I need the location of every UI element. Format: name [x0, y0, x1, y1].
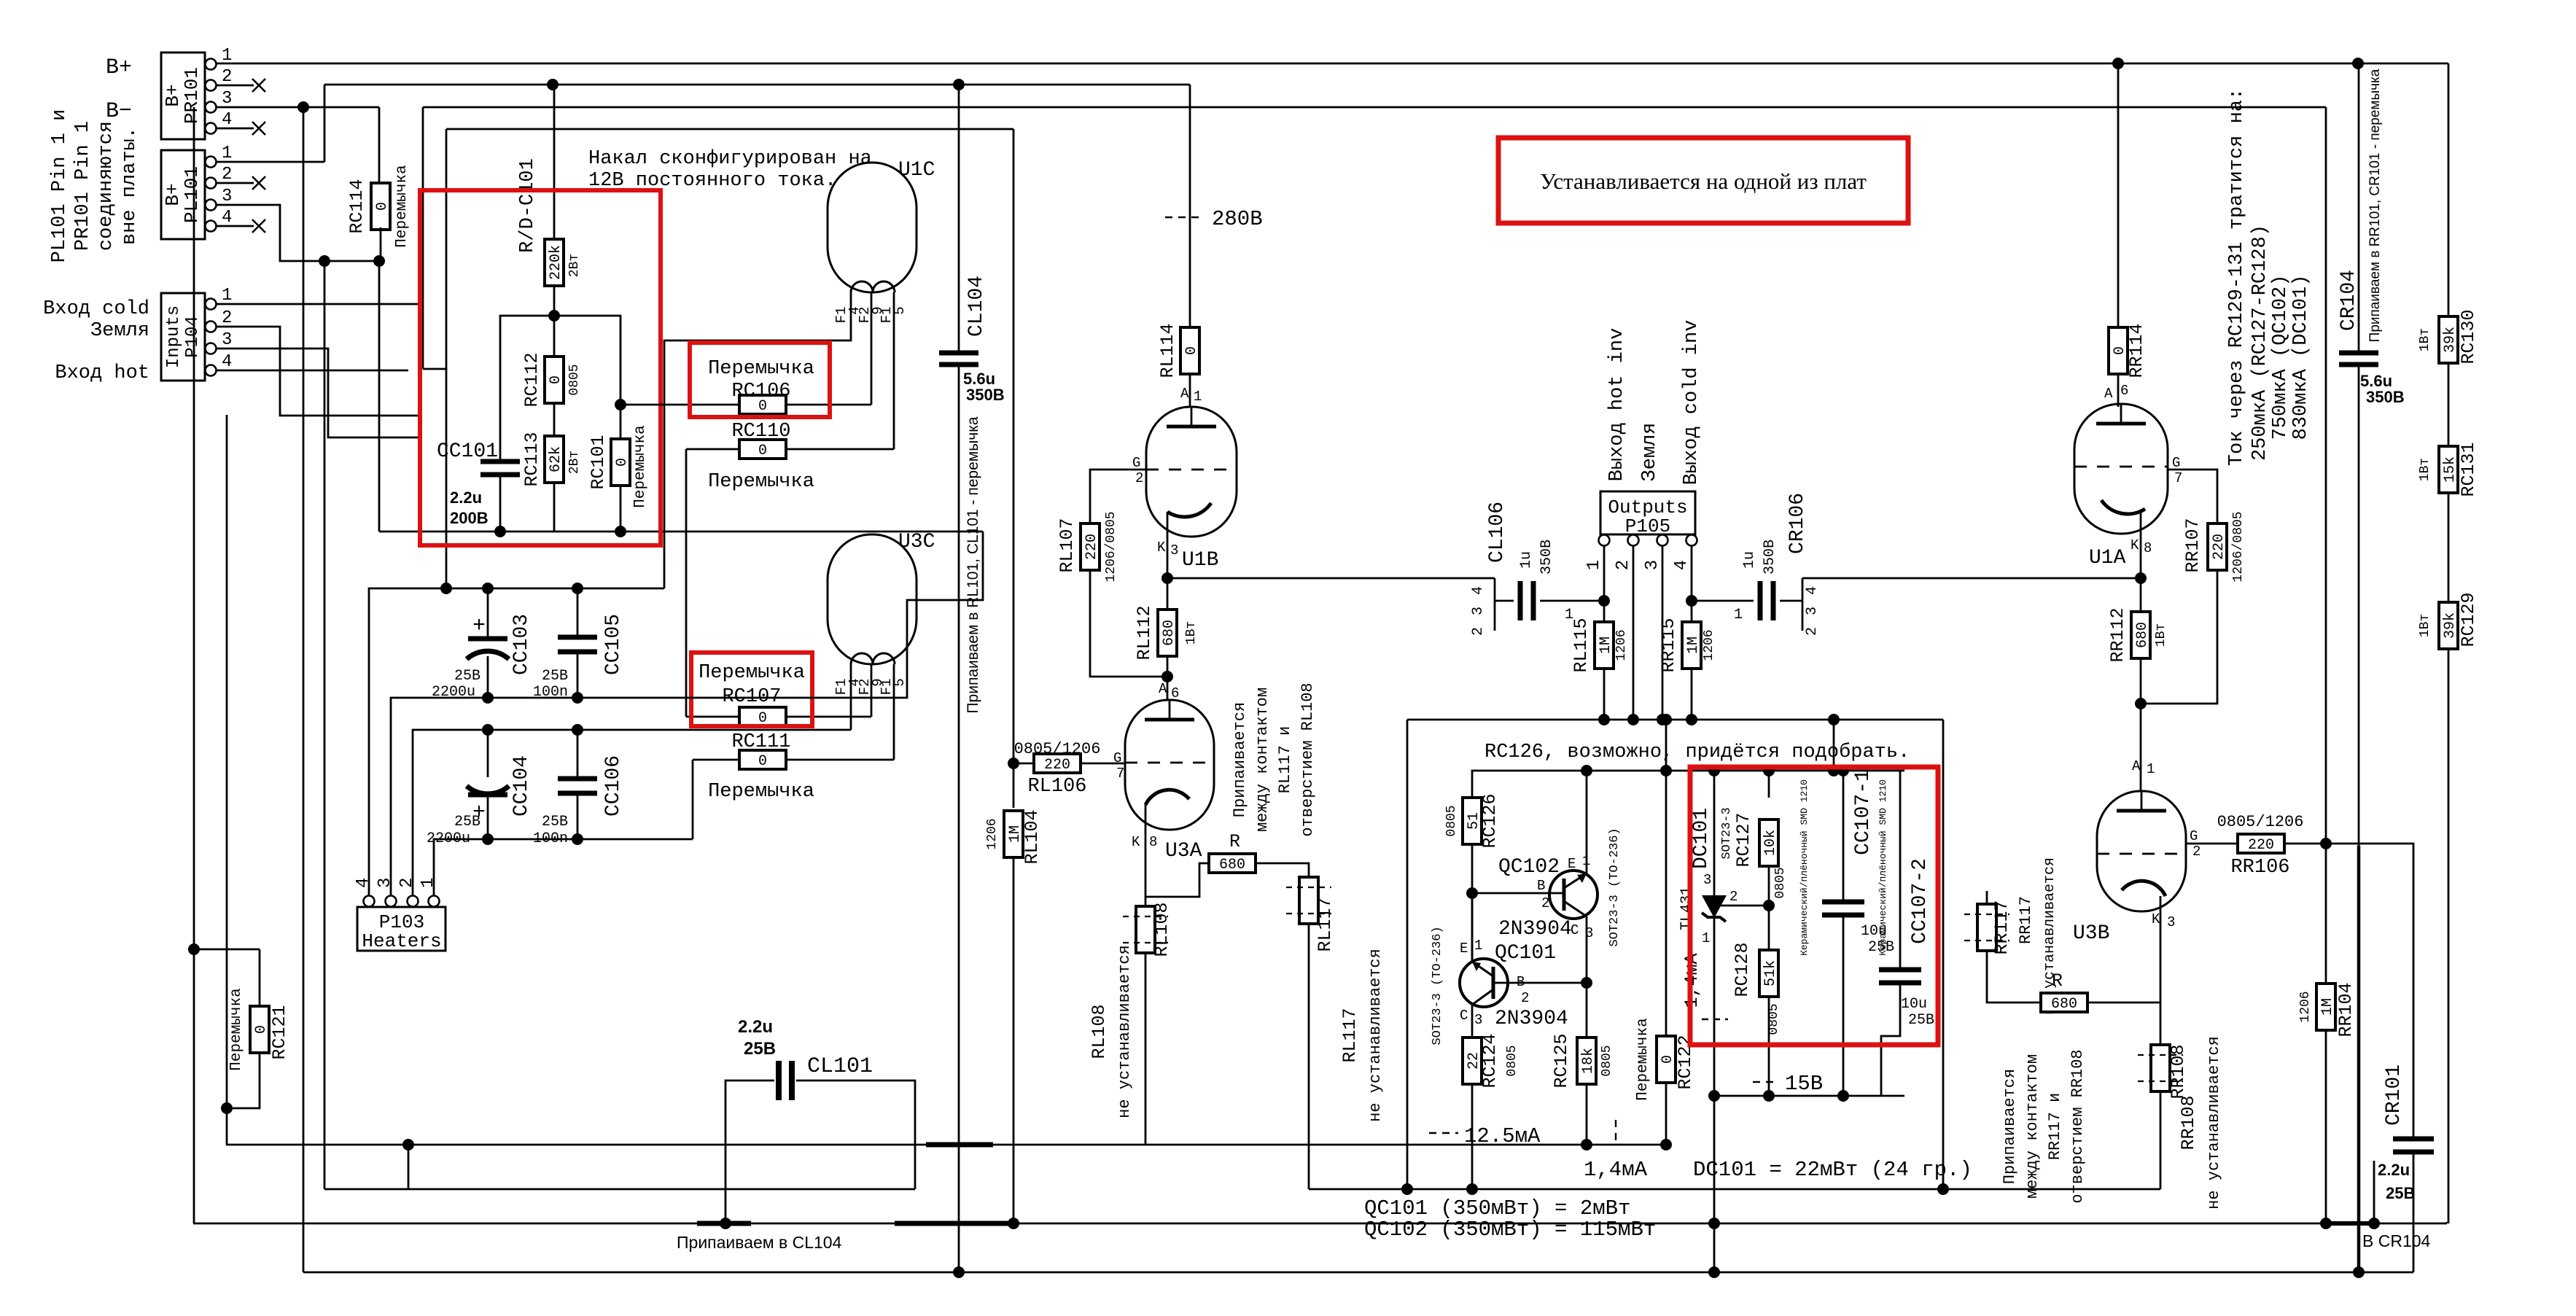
resistor RR107 220 [2141, 511, 2246, 704]
svg-text:2: 2 [1614, 560, 1633, 570]
svg-text:B+: B+ [106, 55, 132, 80]
svg-text:1u: 1u [1518, 551, 1535, 569]
svg-text:RC121: RC121 [269, 1005, 290, 1059]
label 280В [1165, 207, 1263, 231]
label PL101 PR101 note [49, 109, 141, 263]
wire PL101 pin2 stub [216, 176, 265, 190]
svg-text:2: 2 [1470, 627, 1487, 636]
svg-text:830мкА (DC101): 830мкА (DC101) [2290, 275, 2312, 440]
svg-text:Ток через RC129-131 тратится н: Ток через RC129-131 тратится на: [2226, 88, 2248, 466]
svg-text:Перемычка: Перемычка [708, 471, 814, 493]
svg-text:10k: 10k [1762, 830, 1779, 856]
svg-text:RR104: RR104 [2335, 982, 2357, 1037]
svg-text:1206/0805: 1206/0805 [2231, 511, 2246, 582]
svg-text:Припаивается: Припаивается [2001, 1069, 2019, 1184]
svg-text:1M: 1M [1598, 636, 1614, 654]
svg-text:0: 0 [374, 202, 391, 211]
svg-text:1206: 1206 [2298, 991, 2313, 1022]
svg-text:RL108: RL108 [1151, 902, 1172, 957]
svg-text:25В: 25В [454, 668, 480, 685]
svg-text:RC124: RC124 [1479, 1033, 1501, 1088]
wire U1B cathode to CL106 [1167, 577, 1495, 580]
resistor RC110 jumper [686, 421, 894, 717]
svg-text:RR106: RR106 [2230, 857, 2289, 879]
svg-text:PR101 Pin 1: PR101 Pin 1 [72, 121, 94, 251]
svg-text:E: E [1460, 941, 1468, 957]
svg-text:CC107-2: CC107-2 [1909, 858, 1931, 944]
wire heater rail 2 [391, 532, 983, 900]
svg-text:C: C [1460, 1008, 1468, 1024]
wire PR101 pin4 stub [216, 122, 265, 135]
svg-text:3: 3 [1804, 607, 1821, 615]
wire input rail y147 [423, 107, 2326, 369]
wire B- drop into bias network [378, 261, 381, 532]
svg-text:1: 1 [1702, 930, 1710, 946]
resistor RC114 [346, 165, 410, 261]
svg-text:Устанавливается на одной из пл: Устанавливается на одной из плат [1540, 168, 1867, 194]
svg-text:350В: 350В [966, 386, 1005, 404]
svg-text:100n: 100n [533, 830, 568, 847]
svg-text:RC125: RC125 [1551, 1033, 1572, 1088]
svg-text:39k: 39k [2442, 612, 2459, 639]
svg-text:TL431: TL431 [1678, 887, 1695, 930]
svg-text:CL101: CL101 [807, 1054, 873, 1079]
label 15В [1753, 1072, 1823, 1096]
svg-text:350В: 350В [1538, 540, 1555, 575]
connector PR101 [161, 46, 232, 139]
svg-text:CL104: CL104 [965, 276, 988, 337]
resistor RR112 680 [2107, 607, 2168, 791]
resistor RC112 [521, 352, 582, 437]
svg-text:QC102 (350мВт) = 115мВт: QC102 (350мВт) = 115мВт [1364, 1218, 1656, 1242]
capacitor CC107-2 10u [1877, 771, 1934, 1096]
svg-text:Керамический/плёночный SMD 121: Керамический/плёночный SMD 1210 [1799, 779, 1810, 956]
resistor RL104 1M [985, 809, 1043, 1229]
svg-text:SOT23-3 (TO-236): SOT23-3 (TO-236) [1608, 828, 1622, 946]
red highlight box 1 [420, 190, 661, 545]
svg-text:39k: 39k [2442, 327, 2459, 353]
wire U1C pin F2-9 [871, 292, 873, 405]
wire P104 pin1 cold input [216, 303, 423, 305]
svg-text:Припаиваем в CL104: Припаиваем в CL104 [677, 1233, 842, 1252]
resistor RC130 39k [2418, 63, 2479, 365]
svg-text:1,4мА: 1,4мА [1584, 1158, 1648, 1182]
svg-text:A: A [1180, 386, 1189, 402]
svg-text:2: 2 [1729, 889, 1738, 905]
svg-text:DC101: DC101 [1690, 808, 1713, 869]
svg-text:Перемычка: Перемычка [394, 165, 410, 247]
svg-text:RC128: RC128 [1732, 942, 1753, 997]
svg-text:3: 3 [1470, 607, 1487, 615]
svg-text:R/D-C101: R/D-C101 [517, 158, 539, 253]
svg-text:QC102: QC102 [1498, 856, 1560, 879]
capacitor CC106 100n [533, 730, 625, 847]
red highlight box 2 [690, 343, 830, 417]
svg-text:10u: 10u [1901, 996, 1927, 1013]
svg-text:RL117 и: RL117 и [1276, 726, 1294, 793]
svg-text:3: 3 [1170, 542, 1178, 558]
label Припаиваем в CL104 [677, 1233, 842, 1252]
resistor RL117 not installed [1286, 877, 1336, 1189]
svg-text:220: 220 [2248, 837, 2274, 854]
wire QC101 base [1493, 982, 1587, 984]
svg-text:RC126: RC126 [1479, 793, 1501, 848]
wire P105 pin4 [1686, 545, 1697, 607]
label RL108 note [1089, 945, 1134, 1118]
label Вход hot [55, 362, 149, 384]
capacitor CL104 5.6u 350В [939, 276, 1005, 404]
svg-text:1M: 1M [2319, 998, 2336, 1016]
wire RC121 branch vertical [188, 415, 260, 1108]
svg-text:Перемычка: Перемычка [1635, 1018, 1651, 1100]
resistor RC126 51 [1444, 771, 1501, 959]
svg-text:0: 0 [1183, 346, 1200, 355]
svg-text:K: K [1157, 540, 1166, 556]
svg-text:1Вт: 1Вт [2418, 328, 2432, 351]
svg-text:вне платы.: вне платы. [119, 127, 141, 245]
svg-text:G: G [1113, 750, 1121, 766]
resistor RC121 [221, 988, 290, 1145]
svg-text:RL104: RL104 [1022, 809, 1043, 864]
svg-text:350В: 350В [1762, 540, 1778, 575]
svg-text:3: 3 [2167, 914, 2175, 930]
resistor RC106 jumper [620, 358, 871, 415]
resistor R 680 right [2041, 970, 2160, 1013]
svg-text:+: + [472, 614, 486, 639]
resistor RL106 220 [1013, 740, 1125, 798]
svg-text:отверстием RR108: отверстием RR108 [2069, 1049, 2087, 1203]
svg-text:Земля: Земля [90, 320, 149, 342]
svg-text:0: 0 [1659, 1055, 1676, 1064]
svg-text:200В: 200В [450, 509, 489, 527]
svg-text:не устанавливается: не устанавливается [1366, 949, 1385, 1122]
svg-text:U3C: U3C [898, 531, 935, 553]
svg-text:U1C: U1C [898, 159, 935, 182]
resistor RC125 18k [1551, 1033, 1614, 1150]
diode DC101 TL431 [1678, 771, 1769, 1096]
svg-text:Выход cold inv: Выход cold inv [1681, 320, 1703, 486]
label В CR104 [2362, 1231, 2431, 1250]
svg-text:CR104: CR104 [2338, 270, 2360, 331]
wire output ground rail [1401, 714, 1949, 1195]
svg-text:8: 8 [2144, 540, 2152, 556]
svg-text:Керамический/плёночный SMD 121: Керамический/плёночный SMD 1210 [1877, 779, 1888, 956]
svg-text:2: 2 [222, 67, 232, 87]
svg-text:B: B [1537, 878, 1545, 894]
svg-text:RR107: RR107 [2182, 518, 2203, 572]
wire U1B grid [1090, 470, 1146, 523]
svg-text:CC105: CC105 [602, 614, 625, 675]
wire P105 pin1 [1603, 545, 1606, 601]
svg-text:220: 220 [2211, 534, 2227, 560]
svg-text:A: A [2104, 386, 2113, 402]
svg-text:3: 3 [375, 878, 395, 888]
capacitor CR104 5.6u 350В [2338, 58, 2405, 1272]
wire DC101 anode drop [1708, 1096, 1720, 1278]
svg-text:RC130: RC130 [2458, 309, 2479, 364]
svg-text:RL117: RL117 [1339, 1008, 1361, 1062]
svg-text:2: 2 [222, 308, 232, 328]
svg-text:0: 0 [758, 398, 767, 415]
svg-text:25В: 25В [744, 1039, 776, 1059]
svg-text:CL106: CL106 [1486, 502, 1509, 563]
wire U3C pin F1-4 [850, 664, 852, 730]
svg-text:RL114: RL114 [1157, 323, 1178, 378]
svg-text:RC127: RC127 [1733, 812, 1754, 867]
resistor RC128 51k [1732, 906, 1781, 1102]
label RC126 подобрать note [1484, 741, 1910, 763]
svg-text:U1B: U1B [1182, 549, 1218, 572]
svg-text:RC114: RC114 [346, 179, 367, 233]
svg-text:1206/0805: 1206/0805 [1104, 511, 1118, 582]
wire PL101 pin3 to node [216, 205, 385, 267]
svg-text:3: 3 [222, 330, 232, 350]
resistor RC111 jumper [693, 731, 894, 839]
wire PR101 pin2 stub [216, 79, 265, 92]
label Припаивается RL117 note [1231, 682, 1317, 836]
svg-text:1: 1 [222, 286, 232, 305]
svg-text:1: 1 [222, 46, 232, 66]
label Припаиваем в RL101 CL101 [965, 416, 981, 713]
wire QC102 base [1472, 892, 1564, 895]
svg-text:3: 3 [1643, 560, 1662, 570]
resistor RR114 [2104, 58, 2147, 407]
resistor RR117 not installed [1964, 857, 2058, 1015]
resistor RC101 jumper [588, 405, 649, 532]
svg-text:4: 4 [222, 352, 232, 372]
resistor RL115 1M [1571, 601, 1629, 725]
svg-text:U3B: U3B [2073, 922, 2109, 945]
wire P104 pin4 hot input [216, 370, 408, 372]
wire CR106 to U1A cathode [1802, 577, 2141, 580]
wire input vertical left channel [1008, 129, 1019, 808]
capacitor CR106 1u 350В [1692, 493, 1821, 636]
svg-text:Heaters: Heaters [362, 930, 441, 952]
svg-text:Перемычка: Перемычка [228, 988, 245, 1070]
wire PL101 pin4 stub [216, 219, 265, 233]
capacitor CC103 2200u [432, 588, 533, 701]
wire U3B cathode chain [2160, 896, 2162, 1189]
svg-text:K: K [1132, 834, 1140, 850]
resistor RC107 jumper [686, 662, 871, 727]
wire input vertical right channel [2325, 107, 2327, 984]
svg-text:CC107-1: CC107-1 [1852, 769, 1875, 855]
svg-text:15k: 15k [2442, 456, 2459, 483]
wire PL101 pin1 [216, 161, 324, 163]
resistor RC122 jumper [1635, 714, 1696, 1150]
svg-text:4: 4 [222, 208, 232, 227]
connector P105 Outputs [1584, 491, 1697, 570]
svg-text:RR108: RR108 [2168, 1044, 2189, 1099]
svg-text:2: 2 [1135, 470, 1143, 486]
svg-text:2Вт: 2Вт [567, 451, 582, 474]
svg-text:RC101: RC101 [588, 435, 609, 489]
svg-text:Припаивается: Припаивается [1231, 702, 1249, 817]
wire bottom rail 2 right [1309, 1188, 2160, 1191]
wire bias network bottom [379, 526, 983, 537]
svg-text:18k: 18k [1580, 1048, 1597, 1074]
resistor RC127 10k [1733, 771, 1788, 911]
svg-text:2200u: 2200u [432, 684, 475, 701]
wire B- rail [216, 101, 379, 185]
svg-text:Перемычка: Перемычка [632, 425, 649, 507]
svg-text:Перемычка: Перемычка [708, 358, 814, 380]
svg-text:1M: 1M [1685, 636, 1702, 654]
svg-text:51k: 51k [1762, 960, 1779, 986]
svg-text:RL106: RL106 [1027, 776, 1086, 798]
svg-text:25В: 25В [1908, 1012, 1934, 1029]
svg-text:0805: 0805 [1773, 867, 1788, 898]
resistor RR108 not installed [2138, 1044, 2189, 1099]
svg-text:DC101 = 22мВт (24 гр.): DC101 = 22мВт (24 гр.) [1693, 1158, 1972, 1182]
svg-text:RR117: RR117 [2017, 896, 2035, 944]
svg-text:1: 1 [2147, 761, 2155, 777]
svg-text:G: G [2190, 828, 2198, 844]
svg-text:1206: 1206 [1702, 629, 1716, 661]
wire B+ left vertical [324, 261, 326, 1189]
tube U3B [2073, 791, 2201, 946]
svg-text:12В постоянного тока.: 12В постоянного тока. [588, 170, 836, 192]
wire B+ second rail [324, 85, 1190, 162]
wire QC101 emitter [1471, 893, 1474, 962]
svg-text:RL115: RL115 [1571, 618, 1592, 672]
resistor RL114 [1157, 85, 1202, 407]
svg-text:1206: 1206 [985, 818, 1000, 849]
svg-text:4: 4 [1470, 586, 1487, 595]
wire input rail y177 [440, 129, 1013, 594]
svg-text:PL101: PL101 [181, 166, 203, 223]
svg-text:0805: 0805 [1600, 1045, 1614, 1076]
label Вход cold [43, 298, 149, 320]
svg-text:не устанавливается: не устанавливается [1116, 945, 1134, 1118]
svg-text:K: K [2152, 911, 2160, 927]
svg-text:R: R [2052, 970, 2063, 992]
svg-text:PR101: PR101 [181, 67, 203, 124]
svg-text:A: A [2132, 758, 2141, 774]
svg-text:1Вт: 1Вт [2154, 623, 2168, 647]
svg-text:Вход cold: Вход cold [43, 298, 149, 320]
svg-text:680: 680 [1161, 620, 1178, 646]
label QC101 power [1364, 1196, 1630, 1220]
wire U3A cathode [1145, 805, 1210, 906]
svg-text:350В: 350В [2366, 388, 2405, 406]
svg-text:RR117 и: RR117 и [2046, 1093, 2064, 1160]
wire QC101 collector [1471, 1005, 1474, 1037]
svg-text:RC131: RC131 [2458, 442, 2479, 497]
resistor R 680 left [1209, 831, 1309, 877]
label heater note [588, 148, 872, 192]
svg-text:0: 0 [758, 753, 767, 770]
svg-text:U3A: U3A [1165, 840, 1202, 863]
svg-text:0805: 0805 [1444, 805, 1459, 836]
svg-text:4: 4 [222, 110, 232, 130]
svg-text:SOT23-3: SOT23-3 [1720, 807, 1734, 859]
wire bottom ticks rail1 [926, 1142, 993, 1148]
label RR108 note [2178, 1036, 2223, 1210]
label DC101 power [1693, 1158, 1972, 1182]
resistor RL112 680 [1134, 605, 1199, 701]
svg-text:2: 2 [222, 165, 232, 184]
svg-text:соединяются: соединяются [96, 121, 117, 251]
svg-text:RR108: RR108 [2178, 1095, 2199, 1150]
svg-text:Земля: Земля [1639, 422, 1661, 481]
svg-text:1: 1 [1474, 938, 1482, 954]
red note box Устанавливается [1498, 138, 1908, 223]
tube U3C heater section [828, 531, 935, 695]
wire U1C pin F1-4 [664, 292, 851, 588]
svg-text:2.2u: 2.2u [2378, 1161, 2410, 1179]
svg-text:0: 0 [253, 1025, 270, 1034]
svg-text:25В: 25В [542, 814, 568, 830]
transistor QC101 2N3904 [1431, 926, 1568, 1045]
svg-text:220k: 220k [548, 245, 564, 280]
svg-text:680: 680 [2051, 996, 2077, 1013]
capacitor CL101 2.2u 25В [720, 1017, 915, 1229]
svg-text:250мкА (RC127-RC128): 250мкА (RC127-RC128) [2249, 225, 2271, 461]
label B+ left [106, 55, 132, 80]
resistor RC113 62k [521, 432, 582, 532]
svg-text:между контактом: между контактом [2023, 1054, 2042, 1199]
wire P104 pin3 [216, 349, 419, 437]
svg-text:PL101 Pin 1 и: PL101 Pin 1 и [49, 109, 71, 263]
svg-text:Inputs: Inputs [164, 305, 184, 368]
svg-text:RR114: RR114 [2126, 323, 2147, 378]
svg-text:RL107: RL107 [1057, 518, 1078, 572]
svg-text:В CR104: В CR104 [2362, 1231, 2431, 1250]
svg-text:220: 220 [1083, 534, 1100, 560]
svg-text:3: 3 [1474, 1012, 1482, 1028]
wire bottom rail B- [303, 1266, 2413, 1278]
wire QC102 emitter [1586, 771, 1588, 873]
svg-text:QC101: QC101 [1495, 942, 1556, 965]
svg-text:2: 2 [2192, 844, 2201, 860]
wire heater rail top [369, 583, 664, 900]
svg-text:1: 1 [1194, 389, 1202, 405]
connector PL101 [161, 144, 232, 239]
red highlight box 4 [1690, 767, 1938, 1045]
svg-text:3: 3 [222, 89, 232, 109]
svg-text:Перемычка: Перемычка [699, 662, 805, 684]
svg-text:6: 6 [2120, 383, 2128, 399]
wire U3B grid [2186, 843, 2238, 845]
svg-text:1206: 1206 [1614, 629, 1629, 661]
capacitor CC101 2.2u 200В [437, 316, 626, 537]
svg-text:2Вт: 2Вт [567, 254, 582, 277]
svg-text:1: 1 [1584, 560, 1604, 570]
svg-text:100n: 100n [533, 684, 568, 701]
svg-text:RC113: RC113 [521, 432, 542, 486]
resistor RR106 220 [2217, 813, 2332, 879]
resistor RC131 15k [2418, 363, 2479, 497]
wire U3C pin F1-5 [893, 664, 895, 760]
svg-text:220: 220 [1044, 757, 1070, 774]
wire U1B cathode [1161, 512, 1173, 611]
wire B- main vertical [303, 107, 305, 1272]
svg-text:4: 4 [1804, 586, 1821, 595]
svg-text:RR115: RR115 [1658, 618, 1679, 672]
svg-text:SOT23-3 (TO-236): SOT23-3 (TO-236) [1431, 926, 1444, 1045]
svg-text:RC112: RC112 [521, 352, 542, 407]
svg-text:1Вт: 1Вт [2418, 458, 2432, 481]
svg-text:25В: 25В [454, 814, 480, 830]
wire U3C pin F2-9 [871, 664, 873, 717]
svg-text:CC106: CC106 [602, 755, 625, 817]
svg-text:Припаиваем в RR101, CR101 - пе: Припаиваем в RR101, CR101 - перемычка [2367, 69, 2383, 342]
capacitor CL106 1u 350В [1470, 502, 1610, 636]
label Ток через note [2226, 88, 2312, 466]
svg-text:1: 1 [222, 144, 232, 163]
svg-text:Припаиваем в RL101, CL101 - пе: Припаиваем в RL101, CL101 - перемычка [965, 416, 981, 713]
